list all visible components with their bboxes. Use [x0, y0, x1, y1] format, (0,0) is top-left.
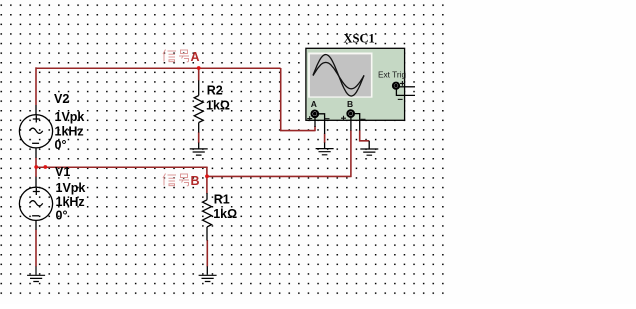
junction node R1 tap on net B: [205, 174, 209, 178]
scope B- polarity mark: [361, 118, 366, 120]
wire scope A- to ground red part: [324, 134, 326, 144]
svg-text:A: A: [311, 99, 317, 109]
svg-text:V2: V2: [54, 92, 69, 106]
svg-text:1Vpk: 1Vpk: [55, 110, 85, 124]
resistor R2: [194, 80, 203, 148]
wire net B vertical through V2-V1 junction: [35, 158, 37, 178]
ground under R1: [199, 275, 217, 281]
scope Ext Trig + mark: [400, 81, 405, 86]
scope Ext Trig - mark: [398, 98, 403, 100]
oscilloscope screen frame: [308, 53, 372, 98]
svg-text:1Vpk: 1Vpk: [56, 181, 86, 195]
resistor R1: [203, 193, 212, 275]
svg-text:0°: 0°: [56, 209, 68, 223]
scope terminal A: [312, 111, 319, 118]
scope A+ polarity mark: [307, 116, 312, 121]
wire net B vertical up to B+ pin: [350, 130, 352, 177]
label XSC1: [344, 31, 375, 45]
svg-text:0°: 0°: [55, 138, 67, 152]
label V1 value 0deg: [56, 209, 68, 223]
grid workspace: [0, 0, 445, 296]
svg-text:1kHz: 1kHz: [55, 125, 84, 139]
ground under scope B-: [360, 149, 378, 155]
label V2 refdes: [54, 92, 69, 106]
label V1 refdes: [55, 165, 70, 179]
wire R2 bottom red part: [198, 132, 200, 143]
svg-text:A: A: [191, 50, 200, 64]
label V2 value 1kHz: [55, 125, 84, 139]
label V1 value 1kHz: [56, 195, 85, 209]
scope Ext Trig stub lower: [396, 89, 415, 96]
wire net A stub up to A+ pin: [314, 126, 316, 131]
wire net A right vertical segment: [280, 68, 282, 130]
scope A- ground lead: [324, 143, 326, 149]
wire net A horizontal top segment: [36, 67, 281, 69]
scope A- polarity mark: [325, 118, 330, 120]
label R1 refdes: [214, 193, 230, 207]
scope B+ pin lead: [350, 117, 352, 130]
svg-text:B: B: [191, 174, 200, 188]
junction node on net B near V1: [43, 165, 47, 169]
scope terminal Ext Trig: [393, 83, 399, 89]
svg-text:V1: V1: [55, 165, 70, 179]
scope terminal B: [347, 110, 354, 117]
source V1: [19, 177, 52, 230]
label R2 value 1kOhm: [206, 99, 230, 113]
scope B+ polarity mark: [341, 116, 346, 121]
label V2 value 0deg: [55, 138, 67, 152]
scope B- stub: [354, 114, 360, 131]
scope pin A label: [311, 99, 317, 109]
wire net B lower horizontal to scope B+: [207, 175, 352, 177]
svg-text:B: B: [347, 99, 353, 109]
svg-text:Ext Trig: Ext Trig: [378, 69, 407, 79]
wire net A left vertical segment to V2: [35, 67, 37, 105]
junction node R2 tap on net A: [197, 66, 201, 70]
wire scope B- red jog to ground: [360, 130, 370, 141]
wire net B horizontal segment: [36, 166, 208, 168]
svg-text:R1: R1: [214, 193, 230, 207]
scope pin B label: [347, 99, 353, 109]
scope Ext Trig stub upper: [399, 86, 415, 88]
ground under V1: [27, 266, 45, 281]
label V1 value 1Vpk: [56, 181, 86, 195]
wire net A lower horizontal to scope A+: [280, 130, 316, 132]
scope B- ground lead: [368, 141, 370, 149]
label V2 value 1Vpk: [55, 110, 85, 124]
scope A- stub: [318, 114, 325, 134]
net label XinHaoA (signal A) hanzi Xin: [163, 50, 176, 62]
scope trace channel A: [313, 55, 364, 97]
junction node at V2/V1 tap: [34, 165, 38, 169]
net label XinHaoA letter A: [191, 50, 200, 64]
scope A+ pin lead: [314, 117, 316, 127]
net label XinHaoB letter B: [191, 174, 200, 188]
svg-text:1kΩ: 1kΩ: [206, 99, 230, 113]
svg-text:1kHz: 1kHz: [56, 195, 85, 209]
source V2: [19, 105, 52, 158]
net label XinHaoB (signal B) hanzi Xin: [163, 174, 176, 186]
wire net B corner down to R1: [206, 167, 208, 194]
label R2 refdes: [207, 84, 223, 98]
net label XinHaoB hanzi Hao: [179, 174, 189, 186]
oscilloscope XSC1 body: [306, 48, 405, 120]
wire V1 bottom to ground red part: [35, 230, 37, 267]
ground under scope A-: [316, 149, 334, 155]
wire R1 bottom to ground red part: [206, 240, 208, 267]
svg-text:1kΩ: 1kΩ: [213, 207, 237, 221]
label Ext Trig: [378, 69, 407, 79]
wire R2 top lead red part: [198, 68, 200, 81]
net label XinHaoA hanzi Hao: [179, 50, 189, 62]
svg-text:XSC1: XSC1: [344, 31, 375, 45]
ground under R2: [190, 149, 208, 155]
label R1 value 1kOhm: [213, 207, 237, 221]
svg-text:R2: R2: [207, 84, 223, 98]
oscilloscope screen: [310, 54, 371, 96]
scope trace channel B: [313, 62, 364, 88]
